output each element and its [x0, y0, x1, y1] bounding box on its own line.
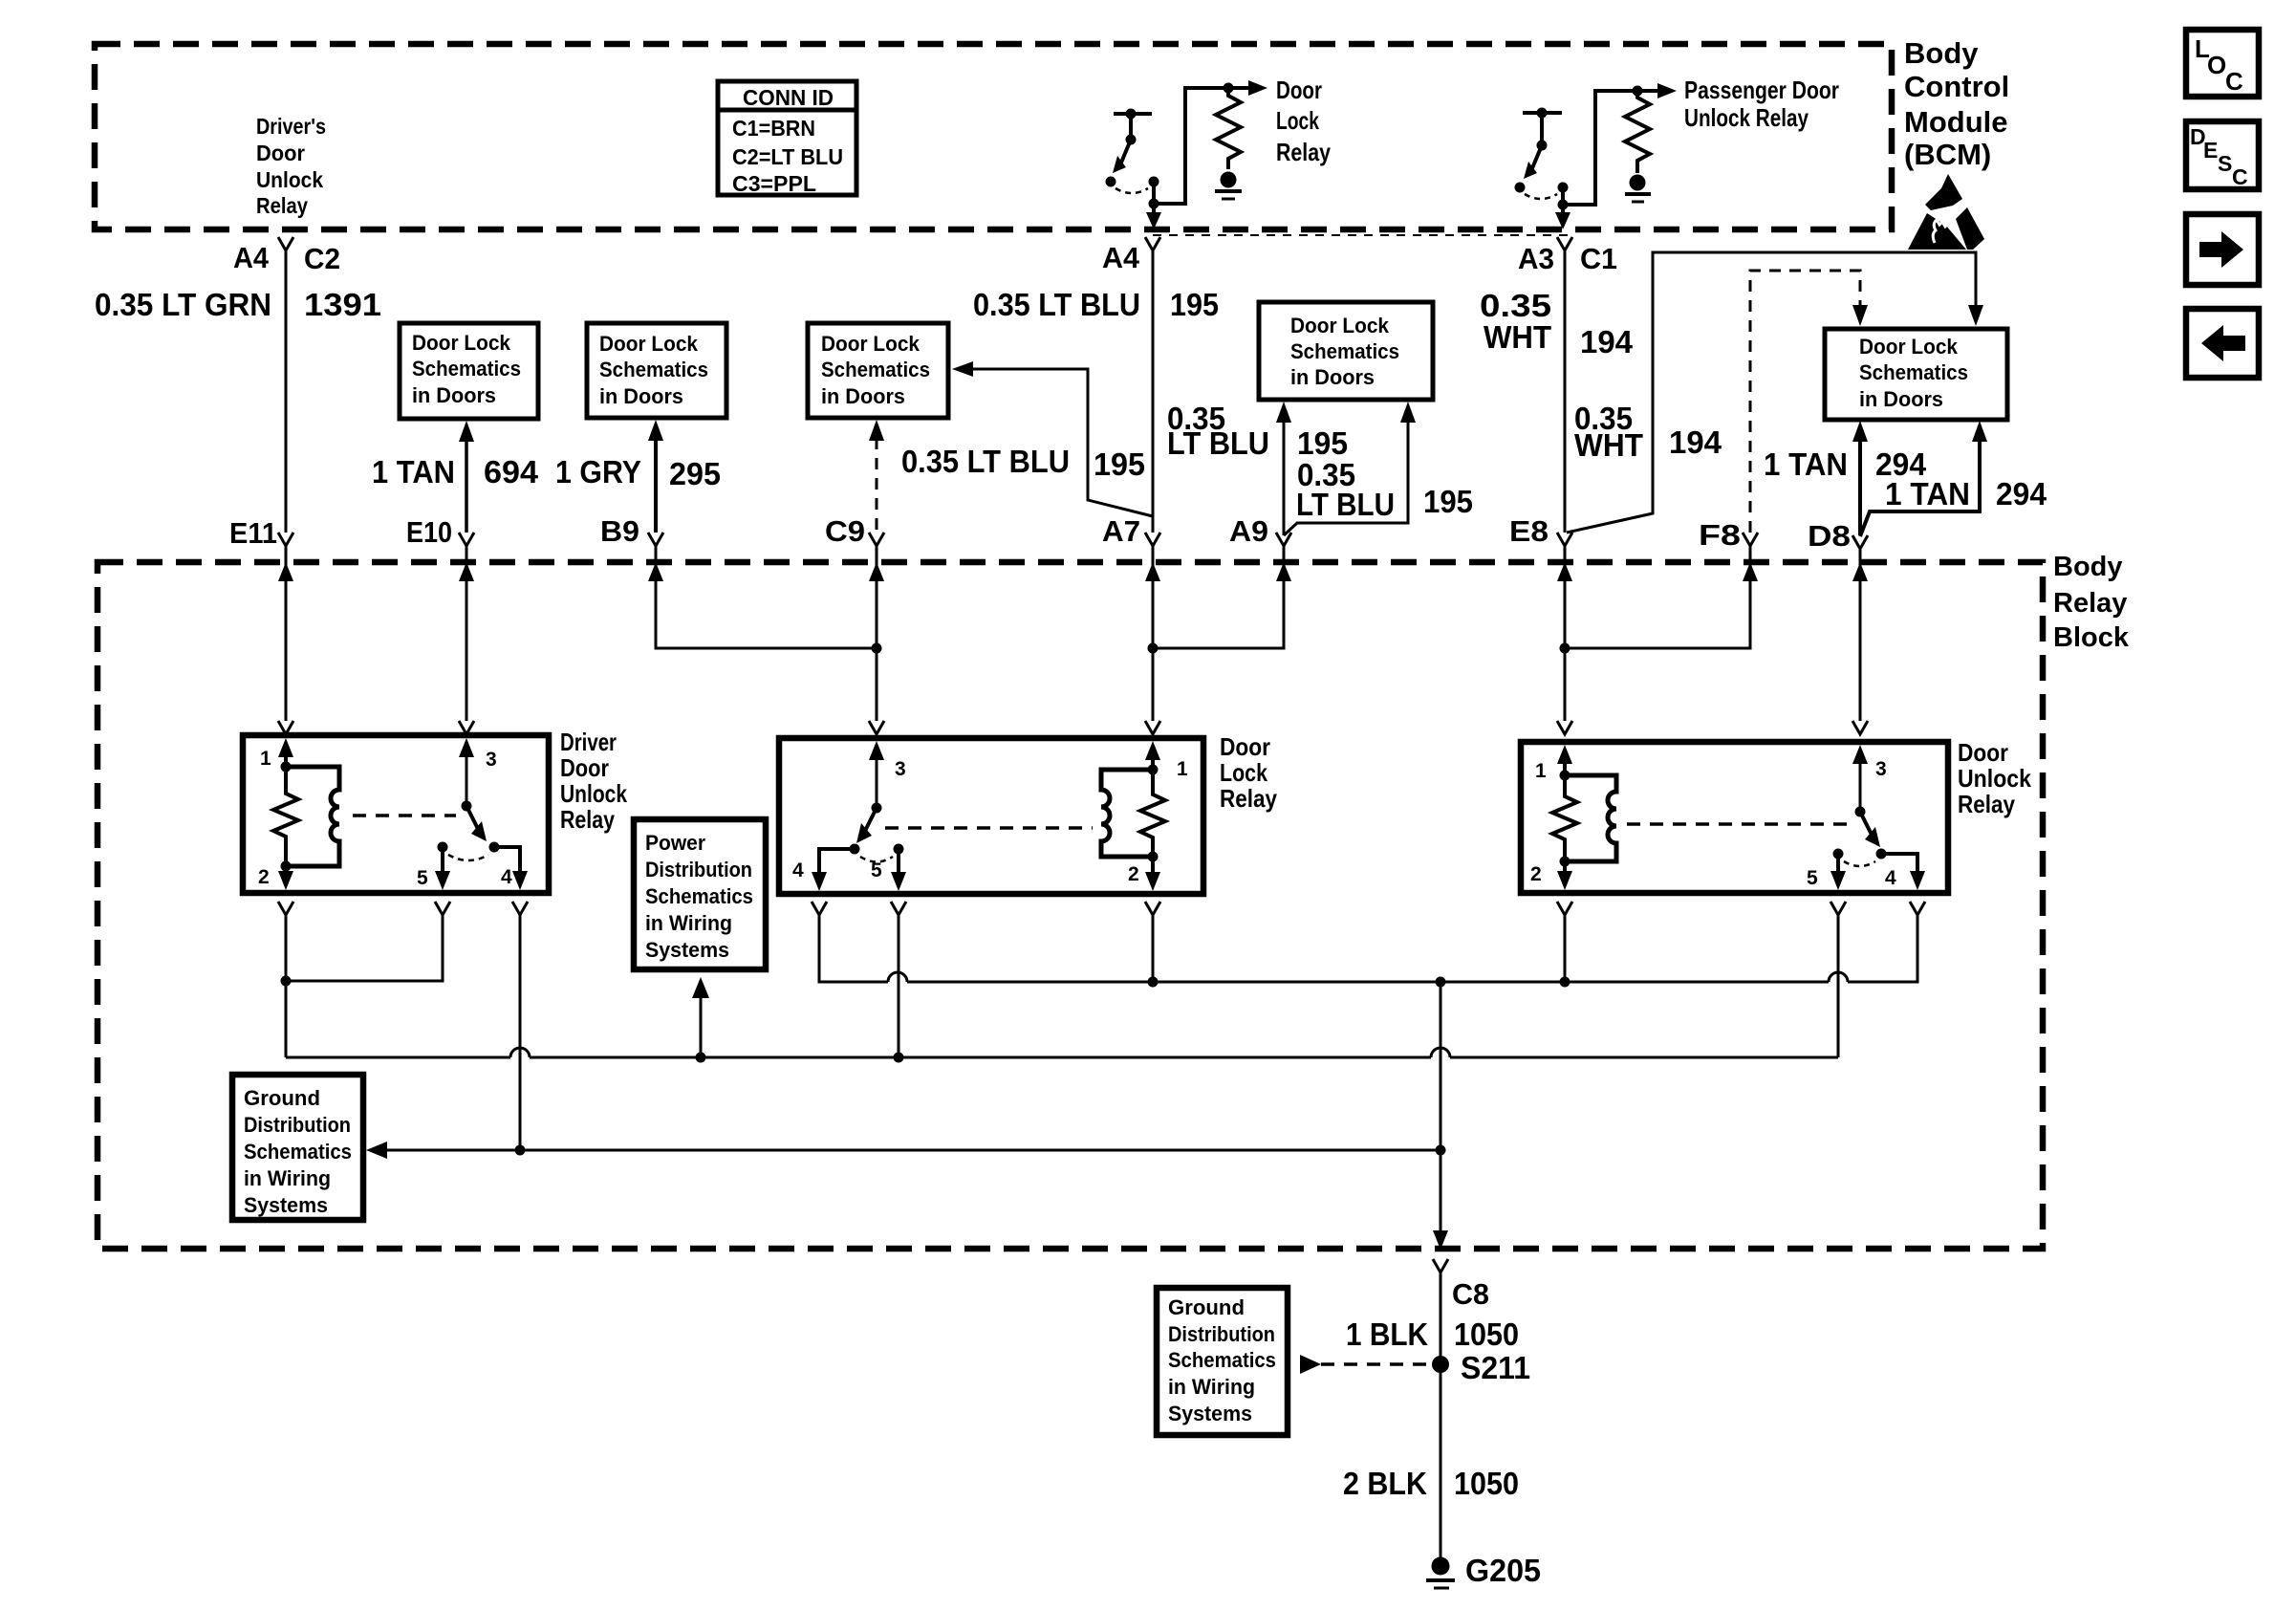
- arrows entering Body Relay Block top border: [278, 562, 1868, 581]
- svg-text:Relay: Relay: [560, 805, 615, 834]
- svg-text:Door: Door: [256, 141, 305, 165]
- wire E11 inside block: [285, 562, 288, 721]
- wire D8 right branch with arrow into box: [1860, 421, 1987, 536]
- wire E8 inside block: [1564, 562, 1567, 721]
- wire E10 circuit 694 with arrow into box: [459, 421, 474, 533]
- ESD sensitivity symbol: [1908, 174, 1984, 250]
- connector Y pins below door unlock relay: [1557, 902, 1925, 915]
- svg-text:O: O: [2207, 51, 2226, 79]
- arrow into box (from E8 branch): [1968, 305, 1983, 326]
- pin 3 switch (driver relay): [459, 738, 497, 841]
- wire relay K1 pole to connector A4: [1146, 204, 1161, 229]
- svg-text:C3=PPL: C3=PPL: [732, 171, 816, 196]
- wire E10 inside block: [466, 562, 468, 721]
- wire door lock relay pin4 to bus1: [819, 915, 888, 982]
- pin 1 (door lock relay): [1145, 741, 1188, 780]
- svg-text:Schematics: Schematics: [244, 1140, 352, 1164]
- svg-text:294: 294: [1996, 476, 2047, 511]
- svg-text:2 BLK: 2 BLK: [1343, 1466, 1427, 1501]
- node power tap on bus2: [696, 1053, 706, 1063]
- wire main ground vertical: [1440, 982, 1442, 1231]
- svg-text:(BCM): (BCM): [1904, 138, 1991, 171]
- svg-text:195: 195: [1094, 446, 1145, 482]
- resistor (door unlock relay coil damping): [1552, 775, 1577, 861]
- svg-text:295: 295: [669, 456, 721, 491]
- svg-text:S: S: [2218, 151, 2232, 176]
- box Ground Distribution Schematics in Wiring Systems (left): [232, 1075, 363, 1220]
- relay box Door Lock Relay: [779, 738, 1203, 894]
- svg-text:A4: A4: [233, 241, 270, 274]
- svg-text:in Wiring: in Wiring: [1168, 1375, 1255, 1399]
- wire arrow to Power Distribution box: [692, 977, 709, 1057]
- node B9/C9 junction: [872, 643, 882, 654]
- svg-text:Systems: Systems: [244, 1193, 328, 1217]
- relay box Driver Door Unlock Relay: [243, 735, 549, 893]
- BCM dashed enclosure box: [95, 44, 1892, 229]
- connector Y A7 at relay: [1145, 721, 1160, 734]
- svg-text:Schematics: Schematics: [645, 884, 753, 908]
- icon LOC button: [2186, 30, 2259, 97]
- label Driver Door Unlock Relay: [560, 728, 627, 834]
- svg-text:0.35: 0.35: [1480, 288, 1551, 323]
- label Door Lock Relay (BCM): [1276, 76, 1331, 166]
- svg-text:C: C: [2232, 164, 2248, 189]
- svg-text:C8: C8: [1452, 1277, 1489, 1311]
- svg-text:in Wiring: in Wiring: [244, 1166, 331, 1190]
- svg-text:Power: Power: [645, 831, 705, 855]
- svg-text:5: 5: [871, 859, 882, 881]
- connector Y A4 (second): [1145, 237, 1160, 250]
- svg-text:Driver's: Driver's: [256, 114, 326, 139]
- wire ground splice bus with arrow to Ground box: [366, 1142, 1440, 1159]
- wire A7 inside block: [1152, 562, 1155, 721]
- ground (BCM relay K1 coil): [1215, 172, 1242, 200]
- CONN ID table: [718, 81, 856, 196]
- pin 2 (door unlock relay): [1530, 857, 1572, 891]
- connector Y F8: [1743, 533, 1758, 546]
- svg-text:1 BLK: 1 BLK: [1346, 1316, 1428, 1352]
- connector Y D8 at relay: [1852, 721, 1868, 734]
- svg-text:5: 5: [417, 867, 428, 889]
- svg-text:Door: Door: [1958, 738, 2008, 767]
- svg-text:F8: F8: [1699, 518, 1741, 552]
- svg-text:Passenger Door: Passenger Door: [1684, 76, 1839, 104]
- box Door Lock Schematics in Doors (top right): [1825, 329, 2007, 420]
- svg-text:Schematics: Schematics: [821, 358, 930, 381]
- box Door Lock Schematics in Doors (B9): [587, 323, 726, 418]
- svg-text:Systems: Systems: [1168, 1402, 1252, 1425]
- svg-text:1050: 1050: [1454, 1466, 1519, 1501]
- svg-text:Body: Body: [2053, 552, 2123, 582]
- Body Relay Block dashed enclosure: [97, 562, 2043, 1249]
- svg-text:A4: A4: [1102, 241, 1140, 274]
- inductor coil (door lock relay): [1101, 770, 1153, 857]
- connector Y C9: [869, 533, 884, 546]
- svg-text:2: 2: [1128, 863, 1139, 885]
- svg-text:Body: Body: [1904, 36, 1979, 70]
- connector Y A4 (left): [278, 237, 293, 250]
- svg-text:G205: G205: [1465, 1553, 1541, 1588]
- inductor coil (driver relay): [286, 767, 339, 866]
- resistor K1 coil: [1216, 88, 1241, 169]
- svg-text:Driver: Driver: [560, 728, 617, 756]
- wire C9 inside block: [876, 562, 878, 721]
- svg-text:Unlock Relay: Unlock Relay: [1684, 103, 1809, 132]
- svg-text:Relay: Relay: [256, 193, 308, 218]
- svg-text:195: 195: [1423, 484, 1473, 519]
- svg-text:Relay: Relay: [1276, 138, 1331, 166]
- svg-text:in Doors: in Doors: [821, 384, 905, 408]
- wire driver relay pin2 to ground bus: [285, 915, 288, 1057]
- icon DESC button: [2186, 121, 2259, 189]
- svg-text:1 TAN: 1 TAN: [1885, 476, 1970, 511]
- connector Y E10 at relay: [459, 721, 474, 734]
- wire dashed from Ground box to S211: [1300, 1355, 1430, 1374]
- svg-text:Schematics: Schematics: [412, 357, 521, 381]
- label Door Lock Relay (block): [1220, 732, 1277, 813]
- svg-text:C1: C1: [1580, 242, 1617, 275]
- svg-text:A3: A3: [1518, 242, 1554, 275]
- svg-text:Systems: Systems: [645, 938, 729, 962]
- connector Y pins below driver relay: [278, 902, 528, 915]
- resistor (door lock relay coil damping): [1140, 770, 1165, 857]
- icon prev-page arrow button: [2186, 309, 2259, 378]
- svg-text:2: 2: [1530, 863, 1542, 885]
- svg-text:Lock: Lock: [1220, 758, 1267, 787]
- thin dashed connector face line A4-A3: [1153, 234, 1569, 236]
- label Passenger Door Unlock Relay (BCM): [1684, 76, 1839, 132]
- wire door unlock relay pin5 to bus2: [1837, 915, 1840, 1057]
- connector Y C9 at relay: [869, 721, 884, 734]
- wire B9 circuit 295 with arrow into box: [648, 420, 663, 533]
- node pin2/pin5 junction: [281, 976, 292, 987]
- svg-text:Ground: Ground: [244, 1086, 320, 1110]
- wire hop bus1 over unlock pin5: [1829, 972, 1848, 982]
- arrow at block bottom border: [1433, 1230, 1448, 1250]
- svg-text:WHT: WHT: [1574, 427, 1643, 463]
- svg-text:Unlock: Unlock: [1958, 764, 2031, 793]
- pin 1 (door unlock relay): [1535, 745, 1572, 782]
- svg-text:1: 1: [260, 748, 271, 770]
- svg-text:A7: A7: [1102, 514, 1140, 548]
- svg-text:C2: C2: [304, 242, 340, 275]
- ground G205: [1426, 1557, 1455, 1589]
- connector Y E8 at relay: [1557, 721, 1572, 734]
- svg-text:194: 194: [1580, 324, 1634, 359]
- connector Y B9: [648, 533, 663, 546]
- connector Y D8: [1852, 535, 1868, 549]
- svg-text:Door: Door: [1220, 732, 1270, 761]
- contact pins 4/5 (driver relay): [417, 842, 528, 891]
- svg-text:1391: 1391: [304, 287, 381, 322]
- svg-text:Relay: Relay: [1958, 790, 2015, 818]
- svg-text:in Doors: in Doors: [1290, 365, 1375, 389]
- inductor coil (door unlock relay): [1565, 775, 1616, 861]
- contact pins 4/5 (door unlock relay): [1807, 849, 1925, 891]
- wire door unlock relay pin2 to bus1: [1564, 915, 1567, 982]
- svg-text:C2=LT BLU: C2=LT BLU: [732, 144, 843, 169]
- connector Y A9: [1276, 533, 1291, 546]
- wire F8 dashed branch: [1750, 271, 1868, 533]
- svg-text:Distribution: Distribution: [1168, 1322, 1275, 1346]
- svg-text:Schematics: Schematics: [1290, 339, 1399, 363]
- svg-text:C: C: [2225, 67, 2243, 96]
- svg-text:E11: E11: [229, 516, 277, 550]
- resistor (driver relay coil damping): [273, 767, 298, 866]
- pin 2 (driver relay): [258, 861, 293, 891]
- resistor K2 coil: [1625, 91, 1650, 173]
- wire A9 right branch with arrow into box: [1284, 402, 1416, 535]
- svg-text:1: 1: [1177, 758, 1188, 780]
- wire A9 circuit 195 with arrow into box: [1276, 402, 1291, 535]
- svg-text:0.35 LT BLU: 0.35 LT BLU: [973, 287, 1140, 322]
- svg-text:WHT: WHT: [1484, 319, 1551, 355]
- svg-text:194: 194: [1669, 424, 1722, 460]
- node pin5 on bus2: [894, 1053, 904, 1063]
- node A7/A9 junction: [1148, 643, 1159, 654]
- wire to S211: [1440, 1273, 1442, 1557]
- svg-text:Relay: Relay: [2053, 588, 2127, 619]
- svg-text:Schematics: Schematics: [1859, 360, 1968, 384]
- box Door Lock Schematics in Doors (A9): [1259, 302, 1433, 400]
- label Door Unlock Relay (block): [1958, 738, 2031, 818]
- svg-text:Block: Block: [2053, 622, 2130, 653]
- svg-text:4: 4: [792, 859, 804, 881]
- svg-text:Door: Door: [560, 753, 609, 782]
- svg-text:Unlock: Unlock: [256, 167, 324, 192]
- wire bus1 segment: [907, 981, 1829, 984]
- svg-text:E10: E10: [406, 515, 452, 549]
- pin 1 (driver relay): [260, 738, 293, 772]
- dashed actuator link (driver relay): [353, 814, 456, 817]
- svg-text:0.35 LT GRN: 0.35 LT GRN: [95, 287, 271, 322]
- svg-text:Schematics: Schematics: [1168, 1348, 1276, 1372]
- connector Y E11 at relay: [278, 721, 293, 734]
- node pin2 unlock on bus1: [1560, 977, 1570, 988]
- svg-text:LT BLU: LT BLU: [1296, 487, 1395, 522]
- svg-text:Lock: Lock: [1276, 106, 1319, 135]
- wire A7 circuit 195: [1152, 250, 1155, 533]
- ground (BCM relay K2 coil): [1625, 175, 1651, 203]
- wire D8 circuit 294 with arrow into box: [1852, 421, 1868, 535]
- box Door Lock Schematics in Doors (E10): [400, 323, 538, 419]
- wire F8 inside block to E8 junction: [1565, 562, 1750, 648]
- dashed actuator link (door lock relay): [885, 826, 1093, 830]
- svg-text:in Doors: in Doors: [412, 383, 496, 407]
- box Door Lock Schematics in Doors (C9): [808, 323, 948, 418]
- svg-text:Ground: Ground: [1168, 1295, 1245, 1319]
- wire C9 dashed with arrow into box: [869, 420, 884, 533]
- svg-text:Distribution: Distribution: [244, 1113, 351, 1137]
- node main ground tap on bus1: [1436, 977, 1446, 988]
- wire door lock relay pin2 to bus1: [1152, 915, 1155, 982]
- node E8/F8 junction: [1560, 643, 1570, 654]
- svg-text:A9: A9: [1229, 514, 1268, 548]
- connector Y C8: [1433, 1259, 1448, 1273]
- svg-text:3: 3: [1875, 758, 1887, 780]
- wire E11 circuit 1391 upper: [285, 250, 288, 533]
- svg-text:Door Lock: Door Lock: [599, 332, 698, 356]
- pin 3 switch (door lock relay): [856, 741, 906, 843]
- connector Y E8: [1557, 533, 1572, 546]
- svg-text:C1=BRN: C1=BRN: [732, 116, 815, 141]
- svg-text:LT BLU: LT BLU: [1167, 425, 1269, 461]
- svg-text:3: 3: [895, 758, 906, 780]
- node pin2 on bus1: [1148, 977, 1159, 988]
- connector Y pins below door lock relay: [812, 902, 1160, 915]
- connector Y E10: [459, 533, 474, 546]
- svg-text:Control: Control: [1904, 70, 2009, 103]
- svg-text:Schematics: Schematics: [599, 358, 708, 381]
- splice S211: [1432, 1356, 1449, 1373]
- node main ground on splice bus: [1436, 1145, 1446, 1156]
- svg-text:3: 3: [486, 749, 497, 771]
- svg-text:1050: 1050: [1454, 1316, 1519, 1352]
- svg-text:Relay: Relay: [1220, 784, 1277, 813]
- connector Y A3: [1557, 237, 1572, 250]
- svg-text:Door Lock: Door Lock: [1859, 335, 1958, 359]
- svg-text:Door: Door: [1276, 76, 1322, 104]
- wire ground bus2: [286, 1048, 1838, 1057]
- wire B9 inside block to C9 junction: [656, 562, 877, 648]
- svg-text:Door Lock: Door Lock: [412, 331, 510, 355]
- label Body Relay Block: [2053, 552, 2130, 653]
- svg-text:2: 2: [258, 866, 270, 888]
- wire driver relay pin4 down to splice bus: [519, 915, 522, 1150]
- svg-text:Unlock: Unlock: [560, 779, 627, 808]
- svg-text:Module: Module: [1904, 105, 2008, 139]
- relay K1 switch (door lock relay, inside BCM): [1106, 109, 1159, 194]
- svg-text:195: 195: [1297, 425, 1348, 461]
- svg-text:Distribution: Distribution: [645, 858, 752, 881]
- label Body Control Module (BCM): [1904, 36, 2009, 171]
- svg-text:B9: B9: [600, 514, 639, 548]
- wire A9 inside block to A7 junction: [1153, 562, 1284, 648]
- svg-text:C9: C9: [825, 514, 865, 548]
- wire E8 branch to Door Lock box top right: [1567, 252, 1976, 533]
- svg-text:1: 1: [1535, 760, 1547, 782]
- icon next-page arrow button: [2186, 214, 2259, 285]
- svg-text:D8: D8: [1808, 519, 1851, 553]
- svg-text:1 TAN: 1 TAN: [1764, 446, 1848, 482]
- svg-text:in Doors: in Doors: [1859, 387, 1943, 411]
- wire bus1 right end to unlock pin4: [1848, 915, 1917, 982]
- wire hop bus1 over pin5: [888, 972, 907, 982]
- dashed actuator link (door unlock relay): [1627, 822, 1851, 826]
- svg-text:694: 694: [484, 454, 539, 490]
- wire door lock relay pin5 to bus2: [898, 915, 900, 1057]
- svg-text:Door Lock: Door Lock: [1290, 314, 1389, 337]
- svg-text:S211: S211: [1461, 1350, 1530, 1385]
- svg-text:5: 5: [1807, 867, 1818, 889]
- relay box Door Unlock Relay: [1521, 742, 1948, 893]
- svg-text:195: 195: [1170, 287, 1219, 322]
- svg-text:1 GRY: 1 GRY: [555, 454, 641, 490]
- connector Y E11: [278, 533, 293, 546]
- wire E8 circuit 194: [1564, 250, 1567, 533]
- contact pins 4/5 (door lock relay): [792, 844, 906, 892]
- wire D8 inside block: [1859, 562, 1862, 721]
- svg-text:Door Lock: Door Lock: [821, 332, 920, 356]
- svg-text:E: E: [2203, 138, 2218, 163]
- relay K2 switch (passenger door unlock relay, inside BCM): [1515, 108, 1569, 200]
- svg-text:in Wiring: in Wiring: [645, 911, 732, 935]
- svg-text:4: 4: [1885, 867, 1896, 889]
- wire branch to Door Lock box (C9 column): [952, 361, 1153, 516]
- node pin4 on ground wire: [515, 1145, 526, 1156]
- box Ground Distribution Schematics in Wiring Systems (bottom): [1157, 1288, 1288, 1435]
- svg-text:CONN ID: CONN ID: [743, 85, 834, 110]
- wire relay K2 pole to connector A3: [1555, 205, 1570, 229]
- wire relay K2 pole run: [1558, 83, 1678, 210]
- pin 3 switch (door unlock relay): [1852, 745, 1887, 847]
- wire driver relay pin5: [286, 915, 443, 981]
- pin 2 (door lock relay): [1128, 852, 1160, 892]
- svg-text:1 TAN: 1 TAN: [372, 454, 455, 490]
- svg-text:0.35 LT BLU: 0.35 LT BLU: [901, 444, 1070, 479]
- svg-text:E8: E8: [1509, 514, 1549, 548]
- connector Y A7: [1145, 533, 1160, 546]
- label Driver's Door Unlock Relay (inside BCM): [256, 114, 326, 218]
- svg-text:4: 4: [501, 866, 512, 888]
- box Power Distribution Schematics in Wiring Systems: [634, 819, 766, 969]
- svg-text:in Doors: in Doors: [599, 384, 683, 408]
- wire relay K1 pole run: [1149, 80, 1268, 209]
